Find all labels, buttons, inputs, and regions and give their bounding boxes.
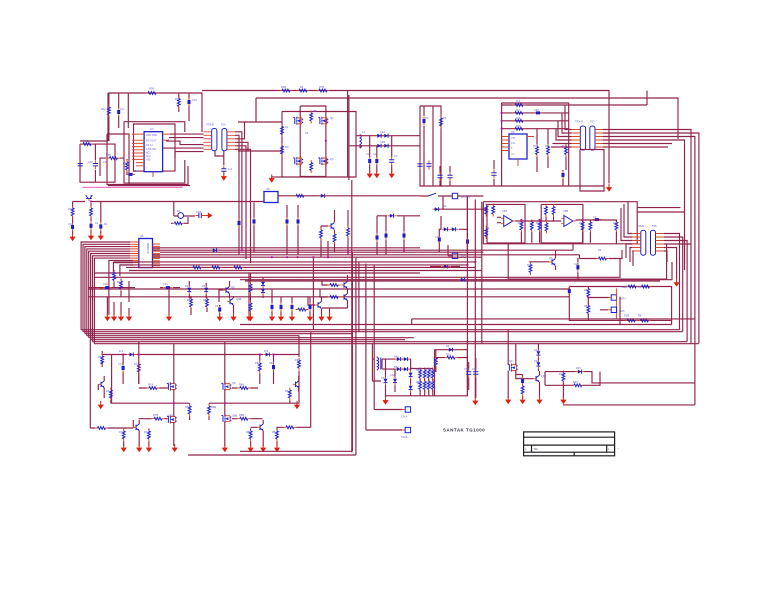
wire	[588, 287, 608, 321]
capacitor C35	[403, 231, 406, 240]
svg-text:D62: D62	[394, 365, 399, 369]
ground	[166, 313, 172, 321]
svg-text:Q4: Q4	[231, 285, 235, 289]
resistor R73	[148, 429, 151, 442]
title block	[524, 432, 615, 456]
resistor R17	[440, 116, 443, 129]
wire	[551, 105, 572, 147]
wire	[577, 258, 579, 279]
wire	[434, 196, 487, 210]
wire	[88, 288, 135, 289]
svg-text:R4: R4	[300, 85, 304, 89]
svg-text:D9: D9	[446, 344, 450, 348]
svg-text:R53: R53	[584, 288, 589, 292]
wire	[412, 319, 695, 325]
svg-text:R0c: R0c	[101, 107, 106, 111]
transformer TRX-R	[580, 126, 595, 150]
svg-text:R8: R8	[285, 389, 289, 393]
ground	[367, 170, 373, 178]
resistor R61	[137, 362, 140, 375]
wire	[256, 91, 349, 181]
wire	[98, 376, 298, 403]
connector J2	[452, 193, 457, 198]
resistor Rg	[427, 368, 430, 381]
ground	[269, 175, 275, 183]
wire	[372, 359, 410, 397]
capacitor C1C	[117, 108, 120, 117]
svg-text:CK A1: CK A1	[146, 144, 153, 147]
svg-text:R31: R31	[518, 221, 523, 225]
diode D25	[261, 280, 265, 289]
svg-text:D5: D5	[202, 284, 206, 288]
svg-text:D1: D1	[177, 209, 181, 213]
svg-text:R6: R6	[443, 116, 447, 120]
resistor R45	[71, 206, 74, 219]
wire	[420, 195, 483, 197]
diode D27	[384, 377, 388, 386]
capacitor C25	[576, 263, 579, 272]
svg-text:C93: C93	[517, 376, 522, 380]
capacitor C18	[491, 170, 496, 179]
svg-text:R54: R54	[584, 304, 589, 308]
svg-text:R7B: R7B	[153, 413, 158, 417]
arrow VCC	[204, 212, 212, 218]
resistor R18	[513, 104, 526, 107]
wire	[321, 210, 348, 257]
svg-text:D.8: D.8	[264, 349, 269, 353]
capacitor C27	[71, 223, 74, 232]
wire	[235, 122, 251, 263]
wire	[370, 136, 392, 173]
wire box	[541, 204, 583, 243]
wire bundle	[81, 242, 130, 344]
ground	[104, 313, 110, 321]
resistor R29b	[545, 221, 548, 234]
pins	[132, 134, 144, 166]
diode D3	[375, 144, 384, 148]
svg-text:RST OUT: RST OUT	[146, 140, 157, 143]
transistor Q11	[315, 302, 321, 309]
svg-text:R71: R71	[98, 355, 103, 359]
svg-text:R33: R33	[536, 221, 541, 225]
svg-text:Q2: Q2	[330, 116, 334, 120]
ground	[382, 397, 388, 405]
svg-text:R3: R3	[486, 203, 490, 207]
capacitor C34	[385, 231, 388, 240]
wire	[250, 273, 252, 315]
connector J5	[611, 307, 616, 312]
capacitor C43	[466, 369, 471, 378]
pins	[153, 244, 161, 266]
wire	[441, 185, 502, 187]
capacitor C16	[426, 161, 431, 170]
capacitor C46	[271, 303, 274, 312]
capacitor C07	[78, 160, 83, 169]
resistor R33	[615, 220, 618, 233]
wire	[419, 369, 421, 396]
capacitor C13	[389, 157, 394, 166]
transistor Q5	[549, 259, 555, 266]
svg-text:8896CRB: 8896CRB	[146, 243, 149, 254]
capacitor C30	[253, 217, 256, 226]
ground	[674, 279, 680, 287]
svg-text:R6B: R6B	[622, 285, 627, 289]
wire	[439, 216, 467, 252]
wire	[469, 358, 476, 398]
junction	[501, 112, 503, 114]
junction	[325, 140, 327, 142]
capacitor C15	[417, 161, 422, 170]
wire	[139, 388, 263, 419]
svg-text:C3: C3	[394, 154, 398, 158]
resistor R25	[485, 204, 488, 217]
resistor R37	[587, 303, 590, 316]
junction	[90, 200, 92, 202]
resistor R65	[288, 388, 291, 401]
ground	[294, 401, 300, 409]
wire box	[420, 106, 441, 186]
ic U6	[139, 239, 153, 268]
junction	[474, 261, 476, 263]
capacitor C08	[93, 160, 98, 169]
mosfet Q14	[167, 383, 177, 391]
junction	[466, 264, 468, 266]
resistor R51	[191, 266, 204, 269]
resistor R57	[206, 297, 209, 310]
svg-text:C30: C30	[103, 282, 108, 286]
wire box	[80, 144, 115, 182]
junction	[327, 256, 329, 258]
capacitor C10	[188, 98, 191, 107]
diode D17	[402, 357, 411, 361]
wire	[435, 350, 468, 372]
pins	[402, 410, 405, 431]
diode D14	[127, 353, 136, 357]
diode D30	[409, 384, 413, 393]
ground	[121, 444, 127, 452]
svg-text:D92: D92	[534, 359, 539, 363]
ground	[318, 313, 324, 321]
ground	[217, 313, 223, 321]
led DS1	[178, 213, 184, 219]
svg-text:U9B: U9B	[563, 209, 568, 213]
svg-text:R-7: R-7	[516, 108, 521, 112]
svg-text:U7: U7	[150, 127, 154, 131]
capacitor C23	[438, 235, 441, 244]
diode D6	[442, 227, 451, 231]
ground	[136, 444, 142, 452]
op-amp U9B	[561, 216, 575, 227]
svg-text:C4B: C4B	[380, 140, 385, 144]
diode D20	[447, 348, 456, 352]
wire	[313, 180, 481, 455]
resistor R49	[333, 232, 336, 245]
svg-text:C18: C18	[68, 222, 73, 226]
svg-text:C4A: C4A	[380, 130, 385, 134]
connector J6	[405, 407, 410, 412]
wire box	[282, 112, 356, 178]
diode D15	[263, 353, 272, 357]
svg-text:R34: R34	[527, 263, 532, 267]
svg-text:R8E: R8E	[211, 405, 216, 409]
mosfet Q20	[508, 364, 518, 372]
svg-text:R-d: R-d	[516, 116, 521, 120]
ground	[222, 444, 228, 452]
inductor L2	[377, 358, 379, 370]
svg-text:R7: R7	[106, 389, 110, 393]
transistor Q7	[223, 287, 229, 294]
resistor R29	[538, 220, 541, 233]
svg-text:CN-A: CN-A	[401, 415, 408, 419]
transistor Q21	[533, 375, 539, 382]
diode D22	[536, 360, 540, 369]
svg-text:C81: C81	[269, 361, 274, 365]
wire	[349, 135, 420, 149]
ground	[172, 444, 178, 452]
inductor L2 core	[380, 358, 382, 370]
transformer TRX-B	[212, 129, 227, 151]
svg-text:TRX-B: TRX-B	[206, 123, 214, 127]
capacitor C19	[437, 172, 442, 181]
svg-text:T05-B: T05-B	[637, 224, 644, 228]
capacitor C36	[103, 286, 112, 289]
wire box	[580, 150, 604, 192]
resistor R25b	[492, 204, 495, 217]
wire box	[107, 134, 188, 185]
pins	[130, 242, 139, 258]
resistor R23	[547, 144, 550, 157]
svg-text:D91: D91	[534, 348, 539, 352]
svg-text:Q3: Q3	[285, 145, 289, 149]
wire	[124, 332, 311, 447]
junction	[520, 219, 522, 221]
wire	[372, 344, 395, 371]
resistor R89	[571, 384, 584, 387]
svg-text:--: --	[618, 447, 620, 450]
pins	[153, 134, 170, 177]
junction	[138, 353, 140, 355]
capacitor C48	[291, 303, 294, 312]
svg-text:R5d: R5d	[203, 298, 208, 302]
ground	[221, 173, 227, 181]
svg-text:R8C: R8C	[246, 430, 251, 434]
resistor R7B	[317, 89, 330, 92]
svg-text:C31: C31	[163, 282, 168, 286]
svg-text:R7C: R7C	[119, 430, 124, 434]
junction	[271, 256, 273, 258]
svg-text:R4: R4	[117, 280, 121, 284]
resistor R53	[232, 266, 245, 269]
wire box	[124, 122, 185, 183]
wire	[109, 93, 128, 141]
wire	[126, 159, 128, 175]
diode D24	[459, 278, 468, 282]
connector J4	[611, 295, 616, 300]
svg-text:U5: U5	[266, 187, 270, 191]
svg-text:U6: U6	[140, 234, 144, 238]
resistor R88	[562, 371, 565, 384]
ground	[289, 313, 295, 321]
resistor R58	[328, 284, 341, 287]
svg-text:R18: R18	[68, 207, 73, 211]
diode D5	[433, 207, 442, 211]
wire	[215, 151, 224, 165]
wire	[112, 354, 299, 356]
wire	[386, 380, 435, 396]
mosfet Q2	[318, 117, 328, 125]
wire	[278, 195, 420, 197]
svg-text:R4: R4	[598, 248, 602, 252]
resistor R44	[172, 222, 185, 225]
svg-text:C1B: C1B	[196, 210, 201, 214]
svg-text:R6: R6	[638, 285, 642, 289]
svg-text:R23: R23	[545, 144, 550, 148]
wire box	[502, 103, 569, 186]
ground	[247, 313, 253, 321]
ground	[260, 444, 266, 452]
diode D4	[382, 144, 391, 148]
ground	[389, 170, 395, 178]
transistor Q19	[257, 424, 263, 431]
wire opamp out risers	[637, 208, 685, 212]
junction	[259, 353, 261, 355]
svg-text:C4: C4	[305, 131, 309, 135]
wire	[537, 344, 539, 372]
resistor R55	[120, 279, 123, 292]
resistor R50	[347, 226, 350, 239]
resistor R69	[237, 417, 250, 420]
ground	[307, 313, 313, 321]
junction	[312, 256, 314, 258]
capacitor C26	[568, 287, 571, 296]
wire	[219, 273, 249, 315]
resistor R0C	[108, 105, 111, 118]
ground	[326, 313, 332, 321]
capacitor C17	[534, 111, 543, 114]
svg-text:U8: U8	[511, 130, 515, 134]
svg-text:C92: C92	[472, 367, 477, 371]
svg-text:Q1: Q1	[285, 125, 289, 129]
capacitor C39	[122, 364, 125, 373]
ground	[88, 232, 94, 240]
resistor R04	[81, 143, 94, 146]
resistor R32	[589, 220, 592, 233]
resistor R43	[90, 206, 93, 219]
diode D16	[395, 357, 404, 361]
wire	[424, 106, 433, 186]
resistor R47	[294, 194, 307, 197]
resistor R4B	[280, 89, 293, 92]
resistor R93	[95, 427, 108, 430]
svg-text:Q92: Q92	[541, 374, 546, 378]
resistor R40	[625, 319, 638, 322]
wire	[109, 260, 133, 315]
resistor R28	[530, 220, 533, 233]
svg-text:Q7B: Q7B	[168, 414, 173, 418]
svg-text:R72: R72	[134, 362, 139, 366]
resistor R31	[581, 220, 584, 233]
svg-text:C91: C91	[464, 367, 469, 371]
wire	[90, 340, 133, 429]
resistor Rg2	[427, 379, 430, 392]
wire	[188, 451, 356, 455]
svg-text:Q5: Q5	[549, 256, 553, 260]
svg-text:R13: R13	[533, 144, 538, 148]
svg-text:OSC VDD: OSC VDD	[146, 134, 157, 137]
svg-text:R7d: R7d	[144, 430, 149, 434]
wire	[516, 371, 540, 398]
wire	[502, 105, 647, 129]
capacitor C40	[272, 363, 275, 372]
resistor R30	[545, 204, 548, 217]
wire	[153, 248, 580, 257]
capacitor C38	[218, 305, 221, 314]
svg-text:Title: Title	[534, 448, 539, 451]
svg-text:T03: T03	[590, 120, 595, 124]
wire	[377, 216, 420, 255]
svg-text:R4B: R4B	[281, 85, 286, 89]
wire	[508, 330, 516, 398]
transistor Q9	[341, 282, 347, 289]
ground	[560, 396, 566, 404]
wire	[523, 372, 564, 398]
capacitor C29	[196, 213, 205, 218]
wire	[435, 366, 437, 372]
resistor R06	[107, 157, 120, 160]
pins	[572, 130, 604, 148]
wire box	[134, 124, 176, 171]
capacitor C05	[126, 173, 135, 176]
title block row line	[524, 436, 615, 438]
resistor Rg2	[423, 379, 426, 392]
svg-text:R5: R5	[313, 109, 317, 113]
svg-text:C07: C07	[88, 160, 93, 164]
resistor R71	[208, 404, 211, 417]
wire	[202, 91, 609, 184]
svg-text:R62: R62	[430, 368, 435, 372]
wire	[190, 403, 209, 420]
resistor R90	[249, 282, 252, 295]
ic U8	[509, 134, 527, 159]
svg-text:C48: C48	[534, 108, 539, 112]
junction	[173, 402, 175, 404]
pins	[608, 289, 616, 320]
resistor R72	[122, 429, 125, 442]
title block divider	[532, 445, 607, 456]
svg-text:C61: C61	[381, 376, 386, 380]
svg-text:R96: R96	[559, 372, 564, 376]
capacitor C28	[90, 221, 93, 230]
capacitor C44	[473, 369, 478, 378]
svg-text:R45: R45	[613, 221, 618, 225]
svg-text:R8A: R8A	[239, 383, 244, 387]
svg-text:D2: D2	[443, 204, 447, 208]
capacitor C20	[447, 172, 452, 181]
resistor R41	[638, 319, 651, 322]
diode D28	[393, 377, 397, 386]
capacitor C31	[286, 217, 289, 226]
resistor R91	[249, 301, 252, 314]
capacitor C11	[368, 157, 371, 166]
svg-text:D4: D4	[185, 284, 189, 288]
wire box	[107, 134, 129, 185]
svg-text:DC IN: DC IN	[461, 195, 470, 199]
wire	[163, 134, 204, 158]
wire	[603, 130, 699, 383]
wire	[80, 140, 108, 142]
diode D11	[211, 248, 220, 252]
switch SW1	[428, 193, 436, 196]
